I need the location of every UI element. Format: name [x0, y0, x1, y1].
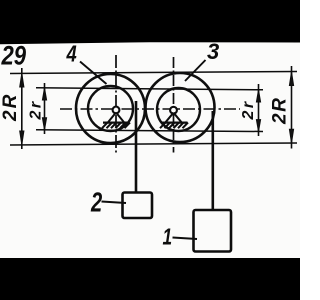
extension line bottom inner (2r) [36, 130, 263, 132]
vertical centerline pulley 3 [173, 57, 175, 153]
svg-text:4: 4 [66, 42, 77, 67]
rope from pulley 4 inner radius to weight 2 [135, 101, 138, 193]
extension line top inner (2r) [36, 88, 263, 90]
horizontal centerline through both pulleys [60, 108, 240, 110]
pulley 4 outer circle [76, 74, 145, 143]
pin support pulley 3: pin circle [170, 107, 177, 114]
bottom black band [0, 258, 300, 300]
leader for label 4 [80, 62, 107, 85]
dimension line 2R right [289, 66, 293, 149]
weight 1 box [194, 210, 232, 252]
pin support pulley 4: pin circle [113, 107, 120, 114]
pin support pulley 3: hatching [160, 123, 188, 129]
pulley 4 inner circle [88, 86, 133, 131]
svg-text:29: 29 [1, 42, 27, 72]
leader for label 1 [173, 238, 198, 240]
leader for label 3 [185, 60, 206, 81]
pulley 3 outer circle [146, 73, 215, 142]
extension line top outer (tangent to both pulleys, 2R) [10, 72, 297, 74]
pulley 3 inner circle [157, 88, 200, 131]
svg-text:2r: 2r [28, 99, 45, 120]
pin support pulley 4: hatching [102, 123, 130, 129]
pin support pulley 3: triangle [166, 113, 182, 123]
vertical centerline pulley 4 [115, 55, 117, 153]
pin support pulley 4: triangle [108, 113, 124, 123]
svg-text:1: 1 [163, 225, 173, 250]
leader for label 2 [102, 202, 127, 204]
svg-text:2: 2 [90, 187, 102, 218]
extension line bottom outer (2R) [10, 143, 297, 145]
rope from pulley 3 outer radius to weight 1 [212, 111, 215, 211]
dimension line 2R left [20, 68, 24, 149]
label 1 [163, 225, 173, 250]
dimension line 2r right [256, 84, 260, 136]
svg-text:3: 3 [207, 39, 219, 64]
svg-text:2r: 2r [240, 99, 257, 120]
pin support pulley 3: ground line [161, 121, 188, 123]
dimension line 2r left [42, 83, 46, 134]
figure number 29 [1, 42, 27, 72]
weight 2 box [123, 193, 153, 219]
top black band [0, 0, 300, 44]
svg-text:2R: 2R [0, 93, 21, 122]
label 4 [66, 42, 77, 67]
pin support pulley 4: ground line [103, 121, 130, 123]
svg-text:2R: 2R [270, 97, 291, 125]
label 2 [90, 187, 102, 218]
